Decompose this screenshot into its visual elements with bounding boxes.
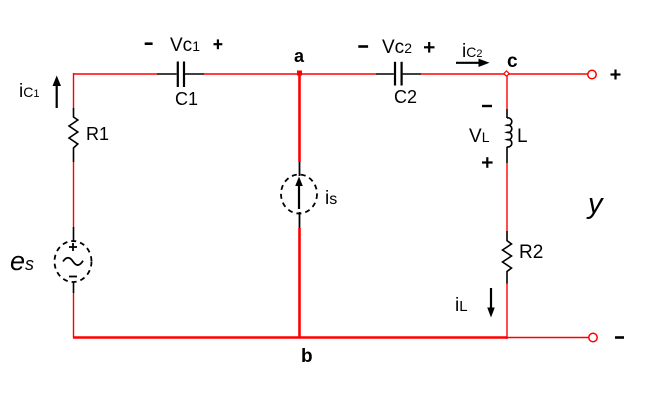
- svg-text:iC1: iC1: [19, 81, 39, 102]
- node a junction dot: [297, 71, 302, 76]
- resistor R1: [69, 108, 78, 162]
- label - Vc1 +: [145, 42, 153, 45]
- svg-text:y: y: [586, 188, 604, 220]
- terminal top-right: [588, 70, 596, 78]
- svg-text:R1: R1: [86, 124, 109, 144]
- svg-text:C2: C2: [394, 87, 417, 107]
- current arrow iL: [487, 288, 495, 318]
- current arrow iC2: [456, 59, 490, 67]
- wire bottom thin to terminal: [507, 337, 589, 339]
- svg-text:C1: C1: [175, 89, 198, 109]
- svg-text:R2: R2: [519, 242, 543, 263]
- svg-text:b: b: [301, 346, 313, 367]
- label - (output): [615, 336, 624, 339]
- wire top-left: node to C1: [73, 73, 157, 75]
- svg-text:Vc2: Vc2: [382, 37, 412, 58]
- VL minus: [482, 105, 492, 107]
- node c junction (open diamond): [504, 71, 509, 76]
- svg-text:iL: iL: [455, 295, 468, 316]
- svg-text:L: L: [517, 126, 528, 147]
- is arrow: [295, 177, 303, 210]
- current arrow iC1: [53, 76, 62, 109]
- wire bottom thick (b rail): [73, 336, 507, 339]
- svg-text:Vc1: Vc1: [170, 35, 200, 56]
- capacitor C1: [157, 62, 204, 88]
- wire right lower (R2 to bottom): [506, 283, 508, 339]
- svg-text:a: a: [294, 46, 305, 66]
- current source is (dashed circle, up arrow): [281, 162, 317, 228]
- inductor L: [507, 109, 512, 163]
- wire right mid (L to R2): [506, 163, 508, 231]
- svg-text:es: es: [10, 246, 34, 276]
- wire left upper: [73, 73, 75, 108]
- wire right upper (c to L): [506, 74, 508, 109]
- wire top-mid: C1 to node a: [204, 73, 376, 75]
- wire middle upper (a to is): [298, 74, 301, 162]
- wire middle lower (is to b): [298, 228, 301, 338]
- capacitor C2: [376, 62, 421, 86]
- svg-text:iC2: iC2: [462, 41, 482, 62]
- wire top-right: C2 to node c and terminal: [421, 73, 588, 75]
- source es (dashed circle, sine): [55, 227, 92, 293]
- svg-text:c: c: [507, 51, 518, 72]
- es polarity -: [69, 276, 77, 278]
- es polarity +: [69, 243, 77, 251]
- VL plus: [482, 157, 493, 168]
- svg-text:VL: VL: [469, 126, 490, 147]
- resistor R2: [503, 231, 512, 284]
- label + (output): [611, 70, 621, 80]
- wire left lower (es to bottom): [73, 293, 75, 338]
- wire left mid (R1 to es): [73, 162, 75, 227]
- label - Vc2 +: [358, 45, 368, 48]
- svg-text:is: is: [325, 188, 337, 209]
- terminal bottom-right: [589, 333, 597, 341]
